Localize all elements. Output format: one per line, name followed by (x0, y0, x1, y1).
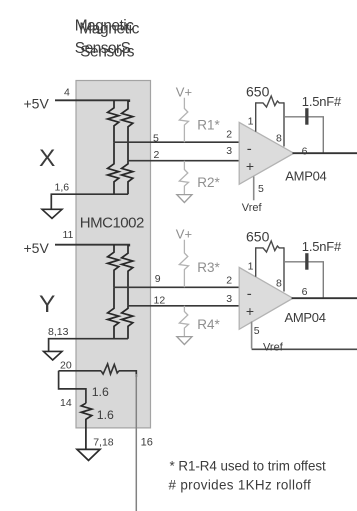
svg-text:1.5nF#: 1.5nF# (302, 94, 342, 109)
svg-text:1,6: 1,6 (55, 181, 70, 193)
pin 1 wire (Y) (255, 247, 257, 276)
svg-text:Sensors: Sensors (80, 44, 135, 61)
Y bridge left bottom resistor (108, 287, 119, 338)
feedback resistor 650 (Y) (256, 241, 284, 252)
pin 5 Vref wire (X) (253, 177, 255, 201)
svg-text:1: 1 (248, 260, 254, 272)
ground X bridge (42, 209, 62, 218)
compensation cap C2 (Y) (305, 253, 308, 270)
svg-text:2: 2 (226, 128, 232, 140)
svg-text:12: 12 (154, 294, 166, 306)
svg-text:5: 5 (258, 183, 264, 195)
svg-text:5: 5 (254, 325, 260, 337)
svg-text:6: 6 (302, 286, 308, 298)
trim resistor R2 with arrow to ground (179, 161, 188, 195)
X bridge right top resistor (122, 101, 133, 161)
svg-text:R2*: R2* (197, 175, 220, 190)
wire bridge pin9 to op-amp pin2 (Y) (114, 286, 239, 288)
svg-text:AMP04: AMP04 (285, 168, 326, 183)
ground 7,18 (77, 449, 100, 460)
svg-text:6: 6 (302, 146, 308, 158)
svg-text:14: 14 (60, 397, 72, 409)
svg-text:+5V: +5V (24, 95, 50, 111)
trim resistor R1 (179, 98, 188, 142)
resistor 1.6 offset strap (81, 403, 92, 449)
svg-text:# provides 1KHz rolloff: # provides 1KHz rolloff (169, 478, 312, 493)
svg-text:V+: V+ (176, 226, 192, 241)
wire pin 20 down to 1.6 resistors (59, 371, 86, 403)
svg-text:HMC1002: HMC1002 (80, 215, 144, 232)
svg-text:-: - (247, 286, 252, 303)
svg-text:V+: V+ (176, 84, 192, 99)
op-amp X output wire (pin 6) (293, 152, 357, 154)
X bridge right bottom resistor (122, 161, 133, 195)
svg-text:R3*: R3* (197, 260, 220, 275)
svg-text:7,18: 7,18 (93, 437, 114, 449)
svg-text:+5V: +5V (24, 240, 50, 256)
svg-text:R1*: R1* (197, 117, 220, 132)
compensation cap branch wire (Y) (284, 262, 323, 298)
svg-text:16: 16 (141, 437, 153, 449)
svg-text:+: + (246, 158, 254, 174)
Vref wire to edge (Y) (252, 348, 357, 350)
svg-text:R4*: R4* (197, 317, 220, 332)
svg-text:Vref: Vref (263, 342, 284, 354)
pin 1 wire (X) (255, 102, 257, 131)
svg-text:4: 4 (64, 86, 70, 98)
svg-text:1: 1 (248, 115, 254, 127)
HMC1002 package body (76, 81, 151, 428)
offset strap resistor (pin 20) (101, 364, 119, 374)
op-amp U2 (Y channel) (239, 267, 293, 329)
title shadow text "Magnetic SensorS" (75, 18, 134, 58)
svg-text:1.5nF#: 1.5nF# (302, 239, 342, 254)
svg-text:AMP04: AMP04 (285, 310, 326, 325)
wire strap to pin 16 (119, 371, 136, 377)
svg-text:650: 650 (246, 229, 270, 245)
svg-text:Vref: Vref (242, 202, 263, 214)
wire +5V to Y bridge top (pin 11) (55, 245, 129, 247)
op-amp Y output wire (pin 6) (292, 297, 357, 299)
svg-text:8: 8 (276, 278, 282, 290)
pin 8 wire (Y) (283, 247, 285, 291)
svg-text:Y: Y (39, 291, 55, 318)
pin 16 wire going off page (135, 374, 137, 511)
op-amp U1 (X channel) (239, 122, 294, 184)
trim resistor R4 with arrow to ground (179, 306, 188, 337)
X bridge left top resistor (108, 100, 119, 142)
svg-text:5: 5 (153, 133, 159, 145)
compensation cap C1 (X) (305, 108, 308, 125)
title text "Magnetic Sensors" (79, 20, 139, 60)
compensation cap branch wire (X) (284, 117, 323, 153)
svg-text:2: 2 (226, 274, 232, 286)
X bridge bottom wire (pins 1,6) (51, 194, 128, 209)
X bridge left bottom resistor (108, 142, 119, 194)
trim resistor R3 (179, 240, 188, 287)
wire pin 20 to offset strap (59, 370, 101, 372)
wire bridge pin5 to op-amp pin2 (X) (114, 141, 239, 143)
svg-text:X: X (39, 145, 55, 172)
svg-text:+: + (246, 303, 254, 319)
Y bridge right top resistor (122, 245, 133, 305)
svg-text:* R1-R4 used to trim offest: * R1-R4 used to trim offest (170, 458, 327, 473)
svg-text:3: 3 (226, 145, 232, 157)
wire +5V to X bridge top (pin 4) (55, 100, 129, 102)
ground Y bridge (44, 351, 63, 360)
wire bridge pin2 to op-amp pin3 (X) (128, 160, 239, 162)
svg-text:9: 9 (155, 273, 161, 285)
svg-text:11: 11 (63, 229, 74, 241)
svg-text:8: 8 (276, 133, 282, 145)
feedback resistor 650 (X) (256, 96, 284, 107)
svg-text:650: 650 (246, 84, 270, 100)
svg-text:Magnetic: Magnetic (79, 20, 139, 37)
wire bridge pin12 to op-amp pin3 (Y) (128, 305, 239, 307)
pin 8 wire (X) (283, 102, 285, 146)
Y bridge left top resistor (108, 245, 119, 288)
Y bridge right bottom resistor (122, 306, 133, 339)
Y bridge bottom wire (pins 8,13) (49, 339, 128, 352)
svg-text:1.6: 1.6 (92, 385, 109, 399)
svg-text:2: 2 (154, 149, 160, 161)
svg-text:-: - (247, 141, 252, 158)
svg-text:3: 3 (226, 293, 232, 305)
pin 5 Vref wire (Y) (251, 322, 253, 349)
svg-text:1.6: 1.6 (97, 408, 114, 422)
svg-text:8,13: 8,13 (48, 326, 69, 338)
svg-text:20: 20 (60, 360, 72, 372)
